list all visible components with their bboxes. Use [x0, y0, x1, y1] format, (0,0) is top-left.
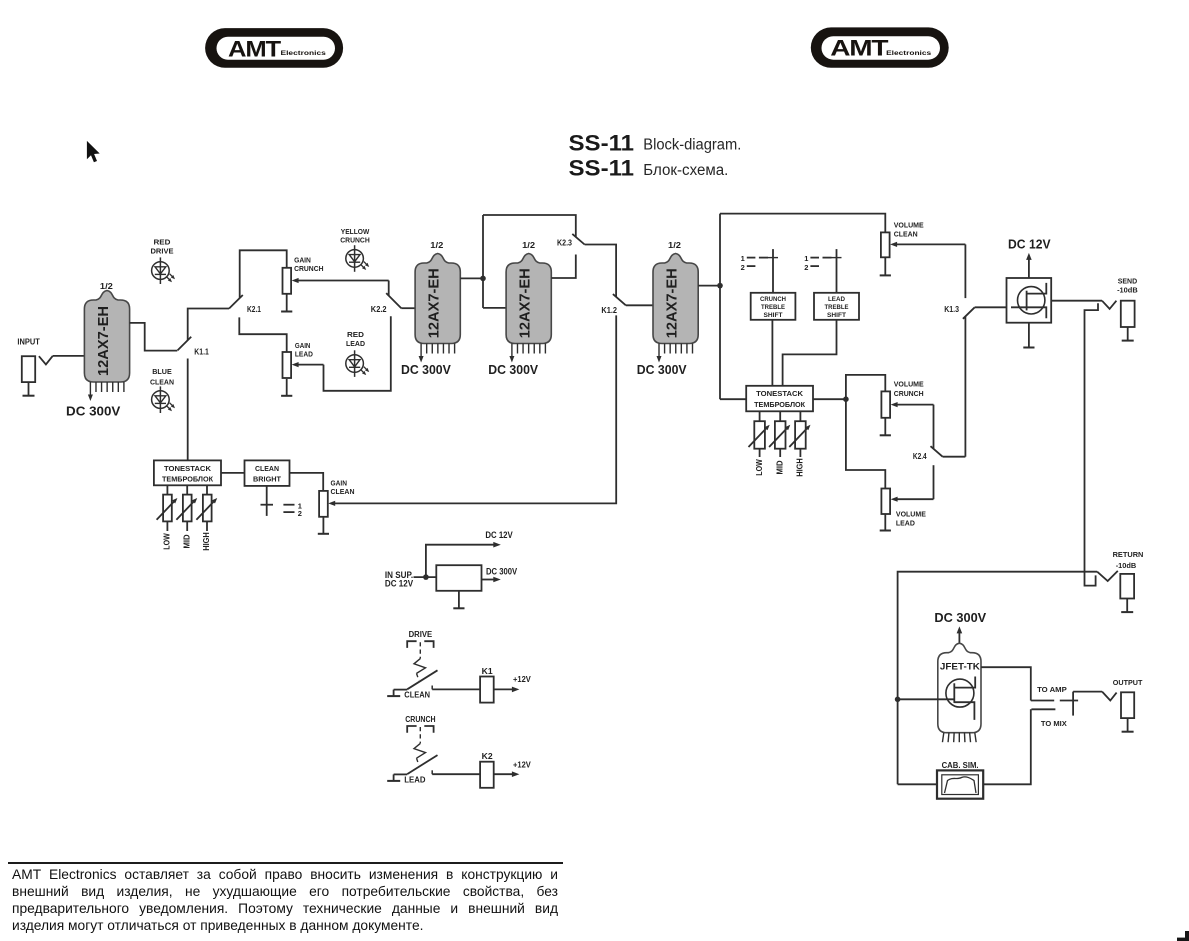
send jack J2 — [1121, 301, 1135, 341]
svg-text:CLEAN: CLEAN — [404, 691, 430, 700]
potentiometer HIGH (right) — [795, 421, 806, 449]
label 1/2 V1 — [100, 281, 113, 291]
wire to volume crunch — [846, 375, 885, 399]
wire K2.2 upper throw — [388, 281, 390, 296]
svg-text:K1.1: K1.1 — [194, 348, 209, 357]
wire to volume lead — [846, 399, 885, 488]
svg-text:12AX7-EH: 12AX7-EH — [518, 268, 534, 338]
tube V3 pins — [509, 344, 545, 363]
svg-text:DC 300V: DC 300V — [488, 363, 538, 377]
tube V1 12AX7-EH — [84, 291, 129, 383]
labels LOW MID HIGH (left) — [163, 532, 212, 551]
tube V4 12AX7-EH — [653, 254, 698, 344]
wire K2.1 lower throw — [239, 317, 286, 352]
svg-text:OUTPUT: OUTPUT — [1113, 678, 1143, 687]
potentiometer HIGH (left) — [203, 495, 212, 522]
wire crunch shift to tonestack — [771, 320, 773, 386]
TONESTACK box (right) — [746, 386, 813, 412]
svg-text:CLEAN: CLEAN — [331, 487, 355, 496]
potentiometer LOW (right) — [754, 421, 765, 449]
GAIN LEAD wiper feed — [292, 362, 324, 367]
svg-text:LEAD: LEAD — [404, 775, 426, 784]
potentiometer MID (right) — [775, 421, 786, 449]
svg-text:SS-11: SS-11 — [569, 156, 635, 181]
labels LOW MID HIGH (right) — [755, 458, 805, 477]
psu box — [436, 565, 481, 591]
label K2.3 — [557, 239, 572, 248]
label GAIN CRUNCH — [294, 256, 323, 273]
title SS-11 Block-diagram — [569, 130, 742, 155]
switch K2.4 — [931, 446, 943, 457]
svg-text:1/2: 1/2 — [668, 240, 681, 250]
junction dot JFET gate — [895, 697, 901, 703]
potentiometer GAIN LEAD — [283, 352, 292, 378]
svg-text:1/2: 1/2 — [522, 240, 535, 250]
svg-text:CRUNCH: CRUNCH — [405, 715, 436, 724]
svg-text:DRIVE: DRIVE — [151, 246, 174, 255]
svg-text:K2: K2 — [482, 752, 494, 761]
tube V2 12AX7-EH — [415, 254, 460, 344]
LED RED DRIVE — [152, 257, 175, 284]
wire gate — [898, 698, 954, 700]
wire K2.2 to V2 — [401, 307, 415, 309]
switch K1.1 — [178, 337, 192, 351]
label K1.1 — [194, 348, 209, 357]
svg-text:Electronics: Electronics — [886, 50, 932, 57]
wire top bypass to K2.3 — [483, 215, 576, 237]
junction dot tonestack out — [843, 396, 849, 402]
wire K1.3 lower to K2.4 — [964, 317, 966, 457]
CRUNCH TREBLE SHIFT box — [751, 293, 796, 320]
potentiometer GAIN CRUNCH — [283, 268, 292, 294]
svg-text:CRUNCH: CRUNCH — [340, 236, 370, 245]
LED YELLOW CRUNCH label — [340, 227, 370, 245]
junction dot V2 out — [480, 276, 486, 282]
wire lead shift to tonestack — [783, 320, 837, 386]
follower transistor symbol — [1011, 283, 1046, 318]
svg-text:1/2: 1/2 — [430, 240, 443, 250]
svg-text:SHIFT: SHIFT — [764, 312, 784, 319]
svg-text:-10dB: -10dB — [1116, 561, 1137, 570]
svg-text:1: 1 — [741, 254, 745, 263]
variable arrows left pots — [157, 498, 218, 520]
JFET-TK name — [940, 662, 980, 672]
CAB SIM response curve — [945, 777, 977, 793]
label DC 300V (JFET) — [934, 610, 986, 625]
tube JFET pins — [942, 733, 976, 743]
ground VOLUME LEAD — [880, 514, 891, 531]
svg-text:+12V: +12V — [513, 675, 532, 684]
wire K1.2 to V4 — [626, 304, 655, 306]
label VOLUME CLEAN — [894, 221, 924, 239]
svg-text:VOLUME: VOLUME — [894, 380, 924, 389]
potentiometer VOLUME LEAD — [881, 489, 890, 515]
svg-text:+12V: +12V — [513, 760, 532, 769]
wire bypass riser — [482, 215, 484, 308]
return jack tip contact — [1097, 571, 1118, 581]
svg-text:DC 300V: DC 300V — [934, 610, 986, 625]
DC 300V label V4 — [637, 363, 687, 377]
svg-text:HIGH: HIGH — [796, 458, 805, 477]
wire K1.2 lower throw to gain clean — [333, 315, 616, 503]
svg-text:K2.1: K2.1 — [247, 305, 261, 314]
label K1.2 — [601, 306, 617, 315]
wire K1.1 upper throw to K2.1 — [188, 309, 229, 341]
label DC 300V (psu) — [486, 566, 517, 576]
LED RED LEAD label — [346, 330, 365, 348]
clean bright cap leg — [261, 486, 274, 516]
title SS-11 Блок-схема — [569, 156, 729, 181]
LED BLUE CLEAN label — [150, 367, 174, 386]
potentiometer GAIN CLEAN — [319, 491, 328, 517]
svg-text:12AX7-EH: 12AX7-EH — [665, 268, 681, 338]
label TO MIX — [1041, 719, 1067, 728]
label DC 12V (follower) — [1008, 237, 1051, 252]
svg-text:1/2: 1/2 — [100, 281, 113, 291]
LEAD TREBLE SHIFT box — [814, 293, 859, 320]
svg-text:1: 1 — [804, 254, 808, 263]
svg-text:TO MIX: TO MIX — [1041, 719, 1067, 728]
svg-text:TONESTACK: TONESTACK — [756, 389, 804, 398]
cap symbol crunch treble — [741, 249, 778, 293]
LEAD TREBLE SHIFT text — [825, 296, 849, 319]
svg-text:K1: K1 — [482, 667, 494, 676]
svg-text:Block-diagram.: Block-diagram. — [643, 137, 741, 154]
wire K2.4 lower throw — [933, 465, 935, 499]
svg-text:CRUNCH: CRUNCH — [294, 264, 323, 273]
svg-text:YELLOW: YELLOW — [341, 227, 370, 236]
potentiometer VOLUME CLEAN — [881, 232, 890, 257]
svg-text:VOLUME: VOLUME — [896, 509, 926, 518]
svg-text:TO AMP: TO AMP — [1037, 685, 1067, 694]
JFET symbol — [946, 677, 975, 720]
label OUTPUT — [1113, 678, 1143, 687]
LED BLUE CLEAN — [152, 386, 175, 413]
tube V1 pins — [88, 382, 124, 401]
DC 12V feed arrow — [1026, 253, 1032, 278]
wire K2.4 upper throw — [933, 405, 935, 449]
svg-text:TREBLE: TREBLE — [825, 304, 849, 311]
wire to tonestack right — [720, 398, 746, 400]
wire K2.1 upper throw loop — [240, 250, 287, 298]
svg-text:DC 12V: DC 12V — [385, 578, 413, 588]
separator rule — [8, 862, 563, 864]
label GAIN LEAD — [295, 341, 313, 359]
wire input to V1 — [53, 355, 85, 357]
wire clean bright to gain clean pot — [290, 473, 324, 491]
psu 300V arrow — [482, 577, 501, 583]
ground GAIN CLEAN — [318, 517, 329, 534]
svg-text:DC 300V: DC 300V — [66, 403, 121, 418]
svg-text:SHIFT: SHIFT — [827, 312, 847, 319]
TONESTACK text — [162, 464, 213, 484]
footswitch DRIVE/CLEAN relay K1 driver — [387, 630, 531, 702]
ground follower — [1023, 323, 1034, 348]
svg-text:AMT: AMT — [228, 36, 281, 61]
svg-text:AMT: AMT — [830, 36, 889, 61]
TONESTACK right text — [754, 389, 805, 409]
svg-text:HIGH: HIGH — [202, 532, 211, 551]
input jack tip contact — [39, 356, 53, 365]
label VOLUME CRUNCH — [894, 380, 924, 398]
switch K2.2 — [386, 293, 401, 308]
svg-text:K1.2: K1.2 — [601, 306, 617, 315]
VOLUME CRUNCH wiper feed — [891, 402, 934, 407]
DC 300V feed arrow JFET — [957, 626, 963, 646]
svg-text:2: 2 — [298, 509, 302, 518]
svg-text:Блок-схема.: Блок-схема. — [643, 162, 728, 179]
wire K2.4 common — [943, 456, 966, 458]
label 1/2 V4 — [668, 240, 681, 250]
switch K1.3 — [963, 307, 975, 319]
wire V2 output — [460, 277, 483, 279]
svg-text:DC 300V: DC 300V — [637, 363, 687, 377]
label 1/2 V3 — [522, 240, 535, 250]
svg-text:SS-11: SS-11 — [569, 130, 635, 155]
send return link riser — [1085, 303, 1099, 585]
svg-text:2: 2 — [741, 263, 745, 272]
svg-text:K2.3: K2.3 — [557, 239, 572, 248]
follower box U1 — [1007, 278, 1052, 323]
CLEAN BRIGHT box — [245, 460, 290, 486]
svg-text:ТЕМБРОБЛОК: ТЕМБРОБЛОК — [162, 474, 213, 483]
label 1/2 V2 — [430, 240, 443, 250]
tube V2 pins — [419, 344, 455, 363]
to mix contact — [1031, 708, 1055, 710]
ground GAIN LEAD — [281, 379, 292, 396]
LED RED DRIVE label — [151, 237, 174, 255]
label RETURN — [1113, 550, 1144, 570]
label IN SUP DC 12V — [385, 570, 413, 588]
AMT Electronics logo (right) — [811, 27, 949, 67]
svg-text:DC 300V: DC 300V — [486, 566, 517, 576]
wire follower out to send — [1051, 300, 1102, 302]
svg-text:CLEAN: CLEAN — [894, 229, 918, 238]
svg-text:-10dB: -10dB — [1117, 286, 1138, 295]
label GAIN CLEAN — [331, 478, 355, 495]
INPUT label — [17, 337, 40, 346]
to amp contact — [1031, 700, 1054, 702]
wire tonestack to clean bright — [221, 472, 245, 474]
label TO AMP — [1037, 685, 1067, 694]
TONESTACK box (left) — [154, 460, 221, 485]
wire insup to psu — [414, 576, 437, 578]
svg-text:TREBLE: TREBLE — [761, 304, 785, 311]
mouse cursor — [87, 141, 100, 162]
svg-text:Electronics: Electronics — [281, 50, 327, 57]
wire K1.1 lower throw to tonestack — [187, 359, 189, 461]
svg-text:LEAD: LEAD — [896, 518, 915, 527]
CLEAN BRIGHT text — [253, 464, 281, 484]
switch K1.2 — [613, 294, 626, 305]
label VOLUME LEAD — [896, 509, 926, 527]
switch K2.3 — [572, 234, 584, 245]
wire tonestack right output — [813, 398, 846, 400]
svg-text:BRIGHT: BRIGHT — [253, 474, 281, 483]
svg-text:12AX7-EH: 12AX7-EH — [96, 306, 112, 376]
return jack J3 — [1120, 574, 1134, 612]
svg-text:BLUE: BLUE — [152, 367, 172, 376]
output jack switch bar — [1060, 692, 1078, 716]
LED RED LEAD — [346, 350, 369, 377]
send jack tip contact — [1102, 301, 1116, 309]
ground psu — [453, 591, 464, 609]
svg-text:K1.3: K1.3 — [944, 305, 959, 314]
svg-text:LOW: LOW — [163, 533, 172, 550]
svg-text:MID: MID — [182, 534, 191, 548]
svg-text:DC 12V: DC 12V — [1008, 237, 1051, 252]
wire K2.2 lower throw loop — [324, 316, 391, 391]
svg-text:RED: RED — [154, 237, 172, 246]
svg-text:LEAD: LEAD — [828, 296, 845, 303]
svg-text:LOW: LOW — [755, 459, 764, 476]
disclaimer paragraph — [12, 866, 558, 935]
CAB SIM box — [937, 770, 983, 798]
label SEND — [1117, 276, 1138, 294]
left pots bottom stubs — [167, 521, 207, 531]
wire V4 out — [698, 285, 720, 287]
tube JFET-TK — [938, 643, 981, 733]
ground VOLUME CRUNCH — [880, 418, 891, 436]
label K2.2 — [371, 305, 387, 314]
wire JFET out — [981, 667, 1031, 700]
wire cab sim input — [898, 783, 937, 785]
wire mix to cab sim — [983, 709, 1031, 784]
label DC 12V (psu) — [485, 530, 512, 540]
wire K2.3 common to K1.2 — [585, 245, 617, 297]
right pots top stubs — [760, 411, 801, 421]
psu 12V arrow — [426, 542, 501, 577]
svg-text:SEND: SEND — [1118, 276, 1138, 285]
svg-text:K2.2: K2.2 — [371, 305, 387, 314]
svg-text:12AX7-EH: 12AX7-EH — [427, 268, 443, 338]
svg-text:DC 300V: DC 300V — [401, 363, 451, 377]
svg-text:K2.4: K2.4 — [913, 452, 927, 461]
junction dot V4 out — [717, 283, 723, 289]
DC 300V label V1 — [66, 403, 121, 418]
clean bright cap options — [283, 501, 302, 518]
wire return bus — [898, 572, 1098, 785]
svg-text:LEAD: LEAD — [346, 339, 365, 348]
svg-text:CAB. SIM.: CAB. SIM. — [942, 761, 979, 770]
cap symbol lead treble — [804, 249, 841, 293]
ground GAIN CRUNCH — [281, 294, 292, 312]
potentiometer LOW (left) — [163, 495, 172, 522]
output jack tip contact — [1102, 692, 1117, 701]
GAIN CRUNCH wiper feed — [292, 278, 389, 283]
junction dot psu — [423, 574, 429, 580]
AMT Electronics logo (left) — [205, 28, 343, 68]
input jack J1 — [22, 356, 35, 396]
wire V3 output to K2.3 throw — [551, 255, 576, 279]
wire to V3 input — [483, 307, 506, 309]
tube V4 pins — [657, 344, 693, 363]
CRUNCH TREBLE SHIFT text — [760, 296, 786, 319]
GAIN CLEAN wiper arrow — [328, 501, 335, 506]
svg-text:TONESTACK: TONESTACK — [164, 464, 212, 473]
wire top run to volume clean — [720, 214, 885, 233]
wire tonestack pot stubs — [167, 485, 207, 494]
corner mark — [1177, 931, 1189, 941]
label K2.1 — [247, 305, 261, 314]
tube V3 12AX7-EH — [506, 254, 551, 344]
wire K1.3 common to follower — [975, 306, 1011, 308]
wire bar to output jack — [1073, 691, 1102, 693]
svg-text:CRUNCH: CRUNCH — [894, 389, 924, 398]
svg-text:ТЕМБРОБЛОК: ТЕМБРОБЛОК — [754, 400, 805, 409]
svg-text:CLEAN: CLEAN — [255, 464, 279, 473]
DC 300V label V2 — [401, 363, 451, 377]
switch K2.1 — [229, 295, 243, 309]
DC 300V label V3 — [488, 363, 538, 377]
svg-text:LEAD: LEAD — [295, 349, 313, 358]
LED YELLOW CRUNCH — [346, 245, 369, 272]
ground VOLUME CLEAN — [880, 257, 891, 275]
svg-text:VOLUME: VOLUME — [894, 221, 924, 230]
label K2.4 — [913, 452, 927, 461]
output jack J4 — [1121, 692, 1134, 731]
svg-text:CRUNCH: CRUNCH — [760, 296, 786, 303]
svg-text:DC 12V: DC 12V — [485, 530, 512, 540]
VOLUME CLEAN wiper feed — [890, 242, 965, 247]
potentiometer MID (left) — [183, 495, 192, 522]
VOLUME LEAD wiper feed — [891, 497, 934, 502]
svg-text:MID: MID — [775, 460, 784, 474]
svg-text:INPUT: INPUT — [17, 337, 40, 346]
footswitch CRUNCH/LEAD relay K2 driver — [387, 715, 531, 788]
wire K1.3 upper throw — [964, 244, 966, 298]
svg-text:CLEAN: CLEAN — [150, 377, 174, 386]
svg-text:2: 2 — [804, 263, 808, 272]
svg-text:RETURN: RETURN — [1113, 550, 1144, 559]
label K1.3 — [944, 305, 959, 314]
wire V4 node riser — [719, 214, 721, 400]
potentiometer VOLUME CRUNCH — [881, 391, 890, 417]
svg-text:RED: RED — [347, 330, 365, 339]
label CAB. SIM. — [942, 761, 979, 770]
variable arrows right pots — [749, 425, 811, 447]
wire V1 output to K1.1 — [130, 323, 178, 351]
svg-text:DRIVE: DRIVE — [409, 630, 433, 639]
svg-text:JFET-TK: JFET-TK — [940, 662, 980, 672]
right pots bottom stubs — [760, 449, 801, 457]
